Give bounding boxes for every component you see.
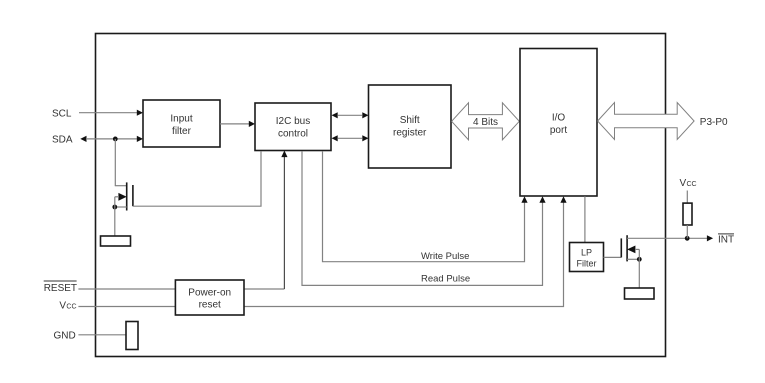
svg-text:SCL: SCL [52,109,72,120]
svg-text:INT: INT [718,234,734,245]
wire Power-on reset to I/O port [244,196,567,306]
wire GND [78,334,126,336]
svg-text:LP: LP [581,248,592,258]
svg-text:reset: reset [199,300,221,311]
svg-text:RESET: RESET [44,283,77,294]
wire Input filter to I2C bus control [220,121,255,127]
channel bar [126,182,128,210]
bus arrow 4 Bits [452,103,520,140]
svg-text:register: register [393,128,427,139]
wire source tap [115,206,127,208]
wire to resistor [114,197,116,236]
node INT junction [685,236,690,241]
wire LP filter to Q2 gate [604,256,622,258]
wire I/O port to LP filter [584,196,586,242]
wire I2C to Shift register lower bidirectional [332,135,369,141]
wire source tap [627,258,639,260]
label RESET (active low) [44,281,77,294]
svg-text:Shift: Shift [400,115,420,126]
resistor (GND pin block) [126,322,138,350]
wire Power-on reset to I2C bus control [244,151,288,290]
block Shift register [369,85,452,168]
block Power-on reset [175,280,244,315]
label Vcc supply [59,301,76,312]
wire to resistor [638,249,640,288]
svg-text:GND: GND [54,331,76,342]
block I2C bus control [255,103,331,151]
svg-text:Filter: Filter [577,259,597,269]
wire Read Pulse [302,151,546,285]
wire Q1 gate to I2C bus control [133,151,261,206]
channel bar [626,235,628,261]
wire SCL line [79,110,143,116]
svg-text:CC: CC [687,181,697,188]
gate bar [132,185,134,206]
wire I2C to Shift register upper bidirectional [332,112,369,118]
node source junction [112,205,117,210]
resistor (INT pull-up) [683,203,692,225]
resistor (SDA driver load) [101,236,131,246]
svg-text:P3-P0: P3-P0 [700,117,728,128]
wire drain tap [115,185,127,187]
svg-text:I/O: I/O [552,113,566,124]
svg-text:filter: filter [172,126,192,137]
body arrow [118,193,126,201]
block Input filter [143,100,220,147]
wire Write Pulse [323,151,528,262]
resistor (INT driver load) [625,288,655,299]
chip boundary [96,34,666,357]
svg-text:Read Pulse: Read Pulse [421,273,470,284]
svg-text:Power-on: Power-on [188,288,231,299]
transistor Q2 (INT output driver) [621,235,641,288]
node SDA junction [113,137,118,142]
svg-text:SDA: SDA [52,135,73,146]
svg-text:port: port [550,125,567,136]
svg-text:I2C bus: I2C bus [276,116,310,127]
svg-text:control: control [278,129,308,140]
svg-text:V: V [59,301,66,312]
gate bar [620,238,622,257]
wire INT line [627,235,713,241]
wire SDA line [80,136,143,142]
bus arrow P3-P0 [598,103,695,140]
power Vcc pull-up [680,178,697,203]
label INT (active low) [718,234,734,245]
wire [114,139,116,186]
svg-text:V: V [680,178,687,189]
wire RESET to Power-on reset [78,288,175,290]
svg-text:4 Bits: 4 Bits [473,117,498,128]
svg-text:Input: Input [170,114,192,125]
svg-text:CC: CC [66,304,76,311]
body arrow [627,246,635,254]
wire resistor to INT node [686,225,688,238]
svg-text:Write Pulse: Write Pulse [421,251,469,262]
block I/O port [520,49,597,197]
wire Vcc to Power-on reset [78,306,175,308]
block LP filter [570,243,604,272]
transistor Q1 (SDA output driver) [112,139,132,236]
node source junction [637,257,642,262]
